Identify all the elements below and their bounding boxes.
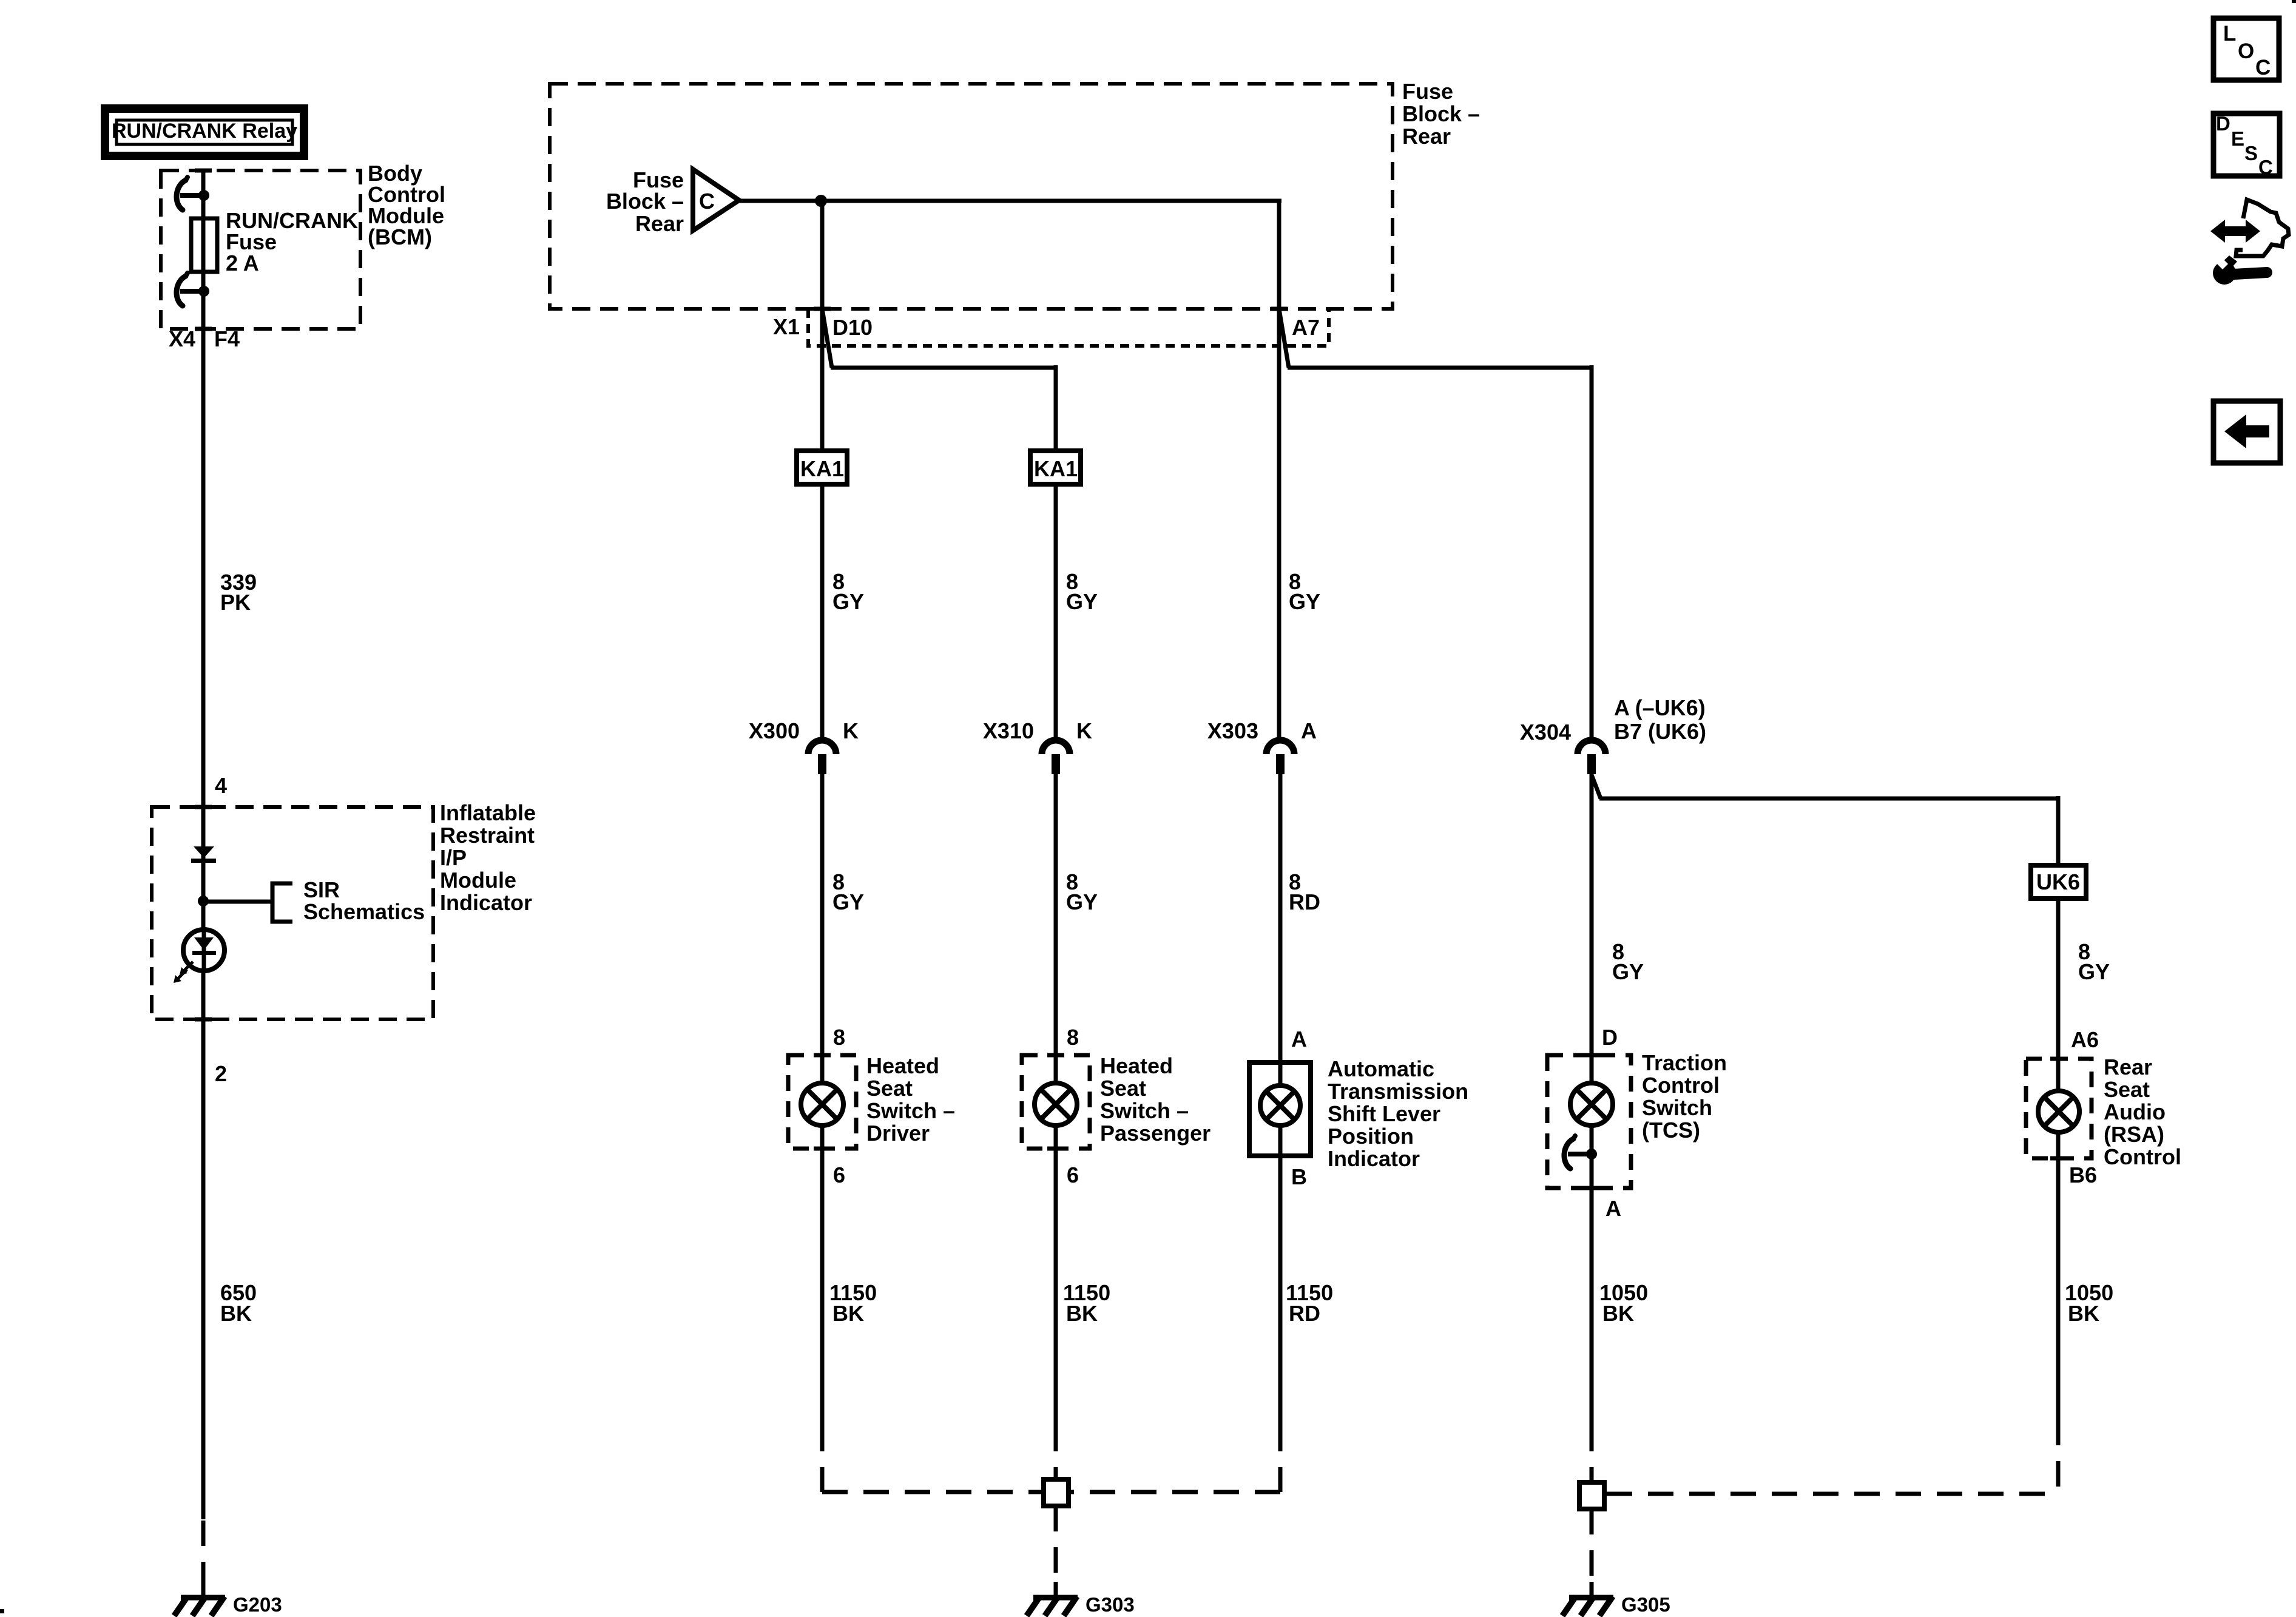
svg-text:Control: Control (1642, 1073, 1720, 1098)
wire A7 down (1277, 201, 1281, 741)
Heated Seat Switch Passenger label (1100, 1053, 1210, 1146)
wire heated driver to ground solid (820, 1126, 825, 1426)
wire crossing ticks on dashed borders (195, 170, 2067, 1188)
label 8 GY col5 (2078, 939, 2110, 984)
svg-text:Control: Control (2104, 1144, 2181, 1169)
wire X310 to lamp (1054, 774, 1058, 1086)
Traction Control Switch label (1642, 1050, 1727, 1143)
Fuse Block Rear label right (1402, 79, 1480, 149)
svg-text:Indicator: Indicator (1328, 1146, 1420, 1171)
node junction to SIR (198, 896, 272, 906)
relay contact upper (177, 177, 209, 210)
SIR Schematics label (303, 877, 425, 924)
wire shift indicator dashed (1278, 1426, 1283, 1492)
ground G303 (1027, 1582, 1078, 1616)
wire dashed horizontal to G303 splice (822, 1490, 1041, 1494)
svg-text:C: C (2258, 156, 2273, 178)
svg-text:4: 4 (215, 773, 227, 798)
svg-text:D: D (2216, 112, 2230, 135)
svg-text:GY: GY (1066, 890, 1098, 914)
pin labels shift indicator A B (1291, 1027, 1307, 1189)
svg-text:D10: D10 (832, 315, 873, 340)
svg-text:B6: B6 (2069, 1163, 2097, 1187)
svg-text:8: 8 (833, 1025, 845, 1050)
connector X1 dotted box (808, 309, 1329, 346)
LOC icon box (2213, 18, 2279, 80)
wire splice to G303 ground (1054, 1506, 1058, 1595)
svg-text:Seat: Seat (2104, 1077, 2150, 1102)
ground G305 (1562, 1582, 1613, 1616)
wire RSA to ground solid (2056, 1131, 2061, 1420)
label 1050 BK col5 (2065, 1280, 2113, 1326)
svg-text:B: B (1291, 1164, 1307, 1189)
wire 650 BK solid (201, 1019, 206, 1519)
svg-text:2: 2 (215, 1061, 227, 1086)
svg-text:Shift Lever: Shift Lever (1328, 1101, 1440, 1126)
ground G203 (174, 1582, 225, 1616)
wire X304 branch diagonal to UK6 (1592, 775, 1601, 798)
relay contact lower (177, 273, 209, 306)
svg-text:L: L (2223, 22, 2236, 46)
svg-text:Rear: Rear (1402, 124, 1451, 149)
TCS contact (1564, 1136, 1597, 1169)
label 1050 BK col4 (1599, 1280, 1648, 1326)
wire UK6 to RSA (2056, 901, 2061, 1092)
Rear Seat Audio Control box (2026, 1059, 2092, 1158)
svg-text:Heated: Heated (1100, 1053, 1173, 1078)
svg-text:GY: GY (2078, 959, 2110, 984)
svg-text:2 A: 2 A (226, 251, 259, 275)
wire X300 branch vertical (820, 201, 825, 741)
svg-text:RD: RD (1289, 1301, 1320, 1326)
page artifact dot (0, 1609, 4, 1613)
svg-text:C: C (2255, 56, 2271, 79)
svg-text:X300: X300 (749, 718, 800, 743)
connector X303 (1266, 740, 1294, 774)
svg-text:KA1: KA1 (1034, 456, 1078, 481)
UK6 option box (2031, 865, 2086, 899)
svg-text:Indicator: Indicator (440, 890, 532, 915)
wire 339 PK (201, 329, 206, 807)
svg-text:A: A (1301, 718, 1317, 743)
label 8 GY col2 lower (1066, 869, 1098, 914)
LED indicator lamp (174, 930, 225, 983)
svg-text:Automatic: Automatic (1328, 1056, 1434, 1081)
wire KA1-2 to X310 (1054, 487, 1058, 741)
labels X303 A (1207, 718, 1317, 743)
label 8 GY col1 lower (832, 869, 864, 914)
connector labels X1 D10 A7 (773, 314, 1320, 340)
wire X303 to lamp (1278, 774, 1283, 1089)
svg-text:F4: F4 (214, 326, 240, 351)
svg-text:Fuse: Fuse (1402, 79, 1453, 104)
label 8 GY col1 upper (832, 569, 864, 614)
svg-text:Audio: Audio (2104, 1099, 2166, 1124)
label 650 BK (220, 1280, 257, 1326)
wire heated passenger to ground solid (1054, 1126, 1058, 1426)
svg-text:Seat: Seat (866, 1076, 913, 1101)
svg-text:X303: X303 (1207, 718, 1258, 743)
DESC icon box (2213, 112, 2280, 178)
svg-text:Position: Position (1328, 1124, 1414, 1149)
svg-text:PK: PK (220, 590, 251, 615)
pin labels RSA A6 B6 (2069, 1027, 2099, 1187)
svg-text:G305: G305 (1621, 1593, 1670, 1616)
svg-text:B7 (UK6): B7 (UK6) (1614, 719, 1706, 744)
labels X304 A B7 (1520, 695, 1706, 744)
splice G303 (1044, 1479, 1069, 1506)
wire splice to G305 ground (1590, 1509, 1594, 1595)
svg-text:6: 6 (833, 1163, 845, 1187)
labels X310 K (983, 718, 1092, 743)
feed C triangle (693, 169, 739, 231)
connector X310 (1042, 740, 1070, 774)
label 8 GY col3 upper (1289, 569, 1320, 614)
Heated Seat Switch Driver label (866, 1053, 955, 1146)
wire dashed horizontal splice to RSA column (1607, 1492, 2058, 1496)
svg-text:A: A (1291, 1027, 1307, 1052)
KA1 box 2 (1030, 451, 1081, 484)
pin X4 F4 labels (169, 326, 240, 351)
svg-text:C: C (699, 189, 715, 214)
svg-text:Switch –: Switch – (1100, 1098, 1189, 1123)
BCM label (368, 161, 445, 249)
wire heated driver dashed (820, 1426, 825, 1492)
connector repair icon (2210, 200, 2289, 285)
svg-text:GY: GY (1289, 589, 1320, 614)
Rear Seat Audio label (2104, 1055, 2181, 1169)
svg-text:Transmission: Transmission (1328, 1079, 1468, 1104)
svg-text:Seat: Seat (1100, 1076, 1146, 1101)
svg-text:X1: X1 (773, 314, 800, 339)
wire TCS dashed (1590, 1426, 1594, 1480)
diode D1 (191, 846, 216, 863)
pin labels heated passenger (1067, 1025, 1079, 1187)
svg-text:Heated: Heated (866, 1053, 939, 1078)
svg-text:Block –: Block – (606, 189, 684, 214)
wire A7 branch diagonal (1279, 309, 1289, 368)
svg-text:A7: A7 (1292, 315, 1320, 340)
SIR schematics bracket (272, 883, 292, 922)
svg-text:Driver: Driver (866, 1121, 930, 1146)
svg-text:BK: BK (1602, 1301, 1634, 1326)
main horizontal wire from C (739, 199, 1281, 203)
pin labels heated driver (833, 1025, 845, 1187)
svg-text:6: 6 (1067, 1163, 1079, 1187)
fuse label (226, 208, 358, 275)
svg-text:K: K (843, 718, 859, 743)
wire inside inflatable module (201, 807, 206, 1019)
wire heated passenger dashed (1054, 1426, 1058, 1477)
fuse RUN/CRANK 2A (191, 218, 217, 272)
wire BCM internal vertical (201, 170, 206, 329)
svg-text:GY: GY (832, 890, 864, 914)
svg-text:X304: X304 (1520, 720, 1571, 744)
wire X300 to lamp (820, 774, 825, 1086)
label 339 PK (220, 570, 257, 615)
svg-text:(BCM): (BCM) (368, 224, 432, 249)
svg-text:E: E (2231, 127, 2244, 150)
wire D10 branch horizontal (831, 366, 1057, 370)
svg-text:Rear: Rear (635, 211, 684, 236)
svg-text:GY: GY (832, 589, 864, 614)
svg-text:BK: BK (1066, 1301, 1098, 1326)
svg-text:Switch: Switch (1642, 1095, 1712, 1120)
svg-text:I/P: I/P (440, 845, 467, 870)
feed label Fuse Block Rear left (606, 167, 684, 236)
wire RSA dashed down (2056, 1420, 2061, 1494)
wire X304 down to TCS (1590, 774, 1594, 1089)
svg-text:Switch –: Switch – (866, 1098, 955, 1123)
Automatic Transmission label (1328, 1056, 1468, 1171)
svg-text:GY: GY (1066, 589, 1098, 614)
svg-text:(TCS): (TCS) (1642, 1118, 1700, 1143)
svg-text:A: A (1606, 1196, 1621, 1221)
svg-text:Restraint: Restraint (440, 823, 535, 848)
page artifact corner mark (2292, 0, 2296, 3)
Fuse Block Rear dashed box (550, 84, 1393, 309)
wire D10 branch diagonal (822, 309, 832, 368)
svg-text:O: O (2238, 39, 2254, 63)
junction node on main wire (815, 195, 827, 207)
wire branch horizontal to UK6 (1599, 797, 2058, 801)
svg-text:Traction: Traction (1642, 1050, 1727, 1075)
wire D10 branch down to KA1 (1054, 365, 1058, 448)
wire dashed horizontal to G303 splice right (1071, 1490, 1280, 1494)
KA1 box 1 (797, 451, 847, 484)
Body Control Module (BCM) dashed box (161, 170, 360, 329)
wire KA1-1 to X300 (820, 487, 825, 741)
Heated Seat Switch Driver box (788, 1055, 856, 1149)
Automatic Transmission Shift Lever Position Indicator box (1249, 1062, 1311, 1156)
Inflatable Restraint module label (440, 800, 536, 915)
wire TCS lamp to contact to box bottom (1590, 1126, 1594, 1190)
wire A7 branch down to X304 (1590, 365, 1594, 741)
label 1150 BK col1 (829, 1280, 877, 1326)
svg-text:BK: BK (832, 1301, 864, 1326)
svg-text:X4: X4 (169, 326, 195, 351)
wire down to UK6 box (2056, 796, 2061, 863)
svg-text:Block –: Block – (1402, 101, 1480, 126)
label 1150 RD col3 (1286, 1280, 1333, 1326)
splice G305 (1579, 1482, 1604, 1509)
label 8 RD col3 lower (1289, 869, 1320, 914)
wire A7 branch horizontal (1288, 366, 1593, 370)
svg-text:X310: X310 (983, 718, 1034, 743)
wire shift indicator to ground solid (1278, 1126, 1283, 1426)
Traction Control Switch box (1547, 1055, 1631, 1188)
svg-text:G203: G203 (233, 1593, 282, 1616)
RUN/CRANK Relay title box (105, 109, 304, 156)
svg-text:Rear: Rear (2104, 1055, 2152, 1079)
svg-text:(RSA): (RSA) (2104, 1122, 2164, 1147)
svg-text:RD: RD (1289, 890, 1320, 914)
labels X300 K (749, 718, 859, 743)
svg-text:BK: BK (2068, 1301, 2099, 1326)
label 8 GY col2 upper (1066, 569, 1098, 614)
back arrow icon box (2213, 401, 2280, 463)
Heated Seat Switch Passenger box (1022, 1055, 1090, 1149)
svg-text:Inflatable: Inflatable (440, 800, 536, 825)
pin labels TCS D A (1602, 1025, 1621, 1221)
svg-text:Module: Module (440, 868, 516, 893)
svg-text:D: D (1602, 1025, 1618, 1050)
connector X304 (1578, 740, 1606, 774)
label 1150 BK col2 (1063, 1280, 1110, 1326)
svg-text:8: 8 (1067, 1025, 1079, 1050)
svg-text:A (–UK6): A (–UK6) (1614, 695, 1706, 720)
svg-text:KA1: KA1 (800, 456, 844, 481)
svg-text:BK: BK (220, 1301, 252, 1326)
svg-text:GY: GY (1612, 959, 1644, 984)
connector X300 (808, 740, 836, 774)
svg-text:Passenger: Passenger (1100, 1121, 1210, 1146)
wire 650 BK dashed (201, 1521, 206, 1596)
svg-text:Schematics: Schematics (303, 899, 425, 924)
label 8 GY col4 (1612, 939, 1644, 984)
svg-text:K: K (1076, 718, 1092, 743)
svg-text:RUN/CRANK Relay: RUN/CRANK Relay (112, 120, 297, 143)
svg-text:UK6: UK6 (2036, 869, 2080, 894)
svg-text:SIR: SIR (303, 877, 340, 902)
svg-text:A6: A6 (2071, 1027, 2099, 1052)
svg-text:G303: G303 (1086, 1593, 1135, 1616)
svg-text:S: S (2244, 142, 2258, 164)
Inflatable Restraint I/P Module Indicator dashed box (152, 807, 433, 1019)
wire TCS to ground solid (1590, 1190, 1594, 1426)
